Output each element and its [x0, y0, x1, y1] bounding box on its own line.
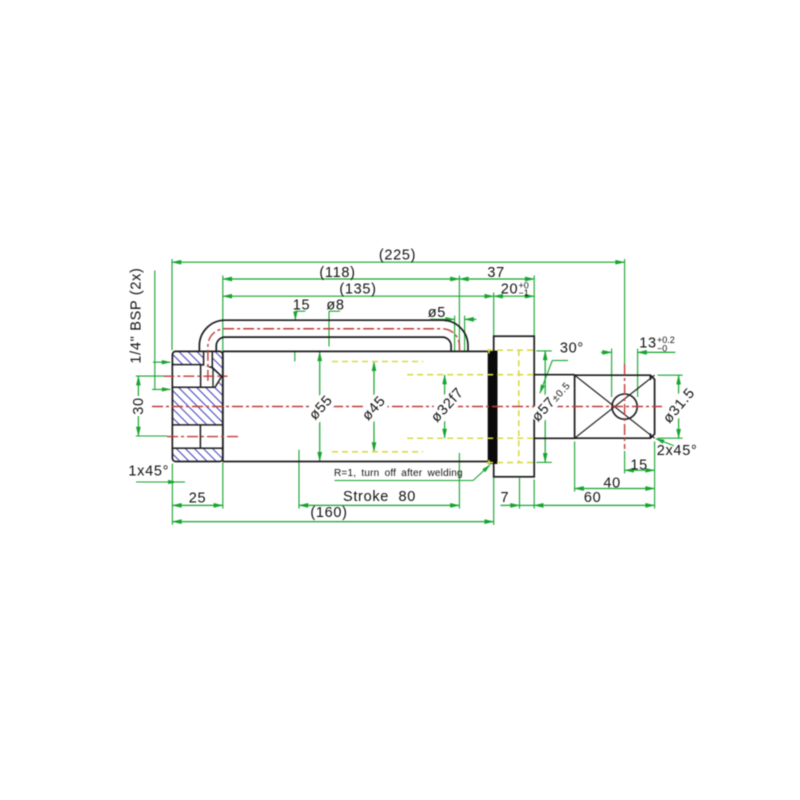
ext left face top	[171, 259, 173, 350]
dim o45 vertical	[373, 362, 375, 452]
svg-text:(160): (160)	[310, 505, 347, 521]
svg-text:20: 20	[501, 281, 519, 297]
dim 25 line	[172, 504, 222, 506]
ext flange right top	[533, 276, 535, 337]
pipe slot in cap	[204, 352, 213, 366]
ext o31.5 top	[658, 374, 683, 376]
leader BSP arrow1	[153, 361, 170, 363]
clevis cross diagonals	[575, 375, 655, 438]
dim 40 line	[575, 488, 655, 490]
hidden counterbore o57 bottom	[487, 462, 534, 464]
flange outline	[494, 336, 535, 477]
ext counterbore 7	[519, 478, 521, 509]
hidden bore o45 bottom	[332, 451, 423, 453]
ext flange left bottom	[493, 466, 495, 525]
cap body hatched	[172, 351, 222, 461]
ext o5 right	[464, 316, 466, 352]
dim o32f7 vertical	[444, 375, 446, 438]
leader R=1 weld underline	[335, 480, 474, 482]
svg-text:30°: 30°	[560, 341, 584, 357]
ext cap right top	[222, 276, 224, 352]
svg-text:60: 60	[584, 490, 602, 506]
svg-text:Stroke 80: Stroke 80	[343, 489, 416, 505]
dim 37 line	[459, 278, 534, 280]
port2 thread step	[199, 425, 201, 448]
svg-text:ø5: ø5	[428, 305, 446, 321]
pipe inner wall	[216, 337, 451, 352]
hidden weld stub bottom	[488, 460, 490, 465]
leader 1x45	[136, 481, 177, 483]
label o31.5	[658, 383, 700, 429]
dim 15 right line	[625, 469, 655, 471]
svg-text:15: 15	[630, 457, 648, 473]
port1 center	[163, 375, 227, 377]
dim 13 tails	[601, 351, 612, 353]
dim o55 vertical	[319, 352, 321, 461]
svg-text:2x45°: 2x45°	[657, 443, 698, 459]
svg-text:(225): (225)	[379, 247, 416, 263]
cap right face	[222, 351, 224, 461]
svg-text:ø8: ø8	[326, 298, 344, 314]
clevis chamfer edge bottom	[649, 433, 651, 438]
ext clevis right bottom	[654, 441, 656, 508]
label o55	[304, 391, 337, 425]
svg-text:R=1, turn off after welding: R=1, turn off after welding	[334, 468, 463, 479]
svg-text:13: 13	[639, 336, 657, 352]
hidden rod o32 bottom	[407, 437, 534, 439]
svg-text:25: 25	[189, 490, 207, 506]
dim (160) line	[172, 521, 493, 523]
clevis chamfer edge top	[649, 375, 651, 380]
barrel top	[223, 350, 488, 352]
hidden weld stub top	[488, 349, 490, 354]
ext flange right bottom	[533, 480, 535, 509]
hidden counterbore bottom vertical	[518, 350, 520, 462]
ext o57 top stub	[536, 350, 551, 352]
ext clevis left bottom	[574, 441, 576, 491]
svg-text:15: 15	[293, 298, 311, 314]
svg-text:7: 7	[501, 490, 510, 506]
svg-text:30: 30	[131, 397, 147, 415]
ext stroke left stub	[294, 352, 296, 362]
tolerance stack 20	[519, 280, 529, 298]
extension lines	[136, 259, 683, 525]
dim o31.5 vertical	[678, 375, 680, 438]
port1 cone base line	[212, 368, 214, 387]
leader BSP vertical	[154, 271, 156, 390]
hidden bore o45 top	[332, 361, 423, 363]
ext o5 left	[454, 316, 456, 352]
label o32f7	[426, 383, 469, 428]
hidden counterbore o57 top	[487, 349, 534, 351]
ext flange left top	[493, 293, 495, 337]
dim 7 line	[501, 504, 520, 506]
rod top	[534, 374, 574, 376]
port1 cavity	[172, 365, 221, 388]
port2 cavity	[172, 425, 222, 448]
label 30 left	[131, 396, 147, 416]
ext hole 13 left	[611, 349, 613, 397]
dim 20 line	[494, 295, 535, 297]
ext pipe hole top	[458, 276, 460, 352]
dim 60 line	[534, 504, 654, 506]
dim 30 vertical	[137, 376, 139, 436]
ext hole center top long	[624, 259, 626, 364]
port1 thread step	[200, 365, 202, 388]
svg-text:1/4" BSP (2x): 1/4" BSP (2x)	[128, 267, 144, 363]
leader 15 pipe	[295, 310, 305, 312]
ext hole center bottom	[624, 451, 626, 474]
main axis	[152, 406, 662, 408]
port2 center	[167, 436, 240, 438]
dim (118) line	[223, 278, 460, 280]
pipe center	[208, 329, 460, 381]
tolerance stack 13	[657, 335, 675, 353]
dim (225) line	[172, 261, 625, 263]
label o45	[357, 392, 390, 426]
ext stroke left bottom	[298, 450, 300, 509]
leader 30deg	[552, 360, 568, 362]
dim (135) line	[223, 295, 494, 297]
svg-text:−0: −0	[657, 343, 667, 353]
svg-text:(118): (118)	[319, 265, 355, 281]
ext hole 13 right	[637, 349, 639, 397]
svg-text:1x45°: 1x45°	[128, 464, 169, 480]
svg-text:−1: −1	[519, 288, 529, 298]
ext 30 upper	[136, 375, 164, 377]
rotated labels	[128, 267, 700, 428]
ext o31.5 bottom	[658, 437, 683, 439]
clevis hole	[612, 394, 637, 419]
dim o57 vertical	[544, 351, 546, 463]
pipe outer wall	[199, 320, 468, 352]
dim o5 tails	[430, 318, 455, 320]
svg-text:(135): (135)	[339, 281, 376, 297]
weld band	[488, 351, 498, 464]
rod bottom	[534, 437, 574, 439]
ext left face bottom	[171, 464, 173, 525]
ext cap right bottom	[222, 463, 224, 509]
leader 2x45	[656, 439, 674, 446]
ext o57 bottom stub	[536, 461, 551, 463]
ext stroke right bottom	[458, 453, 460, 509]
ext 30 lower	[136, 435, 167, 437]
leader o8 pipe	[329, 310, 340, 312]
barrel bottom	[223, 461, 488, 463]
leader BSP arrow2	[152, 388, 170, 390]
hole vertical center	[624, 364, 626, 449]
hidden rod o32 top	[407, 374, 534, 376]
svg-text:40: 40	[603, 475, 621, 491]
svg-text:37: 37	[487, 265, 505, 281]
dim Stroke 80 line	[299, 504, 459, 506]
label o57	[528, 377, 574, 426]
clevis outline	[575, 375, 655, 438]
